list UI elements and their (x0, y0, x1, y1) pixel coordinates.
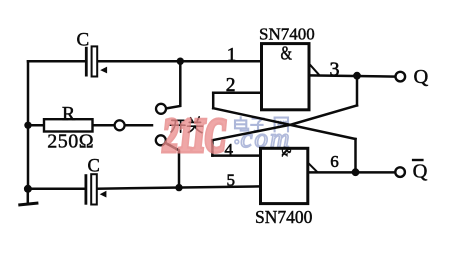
wire resistor to terminal (93, 124, 115, 127)
NAND gate U2 body (261, 148, 308, 203)
wire left vertical (27, 61, 30, 189)
capacitor C1 left plate (85, 47, 88, 77)
wire top-left segment (28, 60, 85, 63)
junction dot bottom switch (175, 184, 182, 191)
wire switch lower throw link (166, 143, 179, 188)
ground stem (27, 189, 30, 204)
NAND gate U2 output arrow (308, 163, 318, 173)
svg-text:4: 4 (225, 140, 234, 159)
wire switch upper throw link (166, 61, 180, 108)
svg-text:6: 6 (330, 152, 339, 171)
label switch guan (Chinese) (188, 117, 203, 133)
wire pin 4 (212, 154, 260, 157)
label Q-bar overline (412, 159, 424, 161)
terminal circle output Q-bar (395, 167, 405, 177)
svg-text:Q: Q (413, 160, 428, 182)
svg-text:5: 5 (226, 170, 235, 189)
wire pin 2 stub (212, 93, 215, 108)
wire pin 3 output to Q (309, 75, 395, 76)
junction dot top switch (177, 58, 184, 65)
wire top-right segment (pin 1 net) (98, 60, 262, 63)
svg-text:Q: Q (414, 66, 429, 88)
wire pin 2 (213, 92, 261, 95)
ground bar (18, 203, 38, 205)
junction dot bottom-left ground (24, 185, 32, 193)
svg-text:C: C (88, 157, 100, 177)
wire pin 3 vertical drop (356, 76, 359, 106)
wire switch pole arm (125, 124, 152, 127)
svg-text:21IC: 21IC (160, 109, 229, 161)
capacitor C2 polarity arrow (100, 191, 107, 198)
svg-text:R: R (62, 103, 76, 125)
capacitor C2 left plate (85, 174, 88, 205)
watermark .com (outlined italic) (235, 123, 292, 153)
terminal circle switch lower throw (156, 135, 166, 145)
wire pin 6 vertical rise (354, 139, 357, 172)
svg-text:3: 3 (330, 59, 340, 81)
svg-text:2: 2 (226, 75, 236, 96)
svg-text:C: C (77, 30, 90, 51)
wire resistor branch left (28, 124, 44, 127)
label switch kai (Chinese) (170, 120, 185, 132)
NAND gate U1 output arrow (309, 64, 319, 76)
capacitor C1 polarity arrow (100, 67, 107, 74)
wire pin 4 stub (211, 140, 214, 155)
watermark 21IC (160, 109, 229, 161)
NAND gate U1 body (262, 44, 310, 110)
terminal circle after resistor (115, 120, 125, 130)
terminal circle output Q (396, 72, 406, 82)
svg-text:com: com (241, 123, 292, 153)
svg-text:1: 1 (227, 45, 237, 66)
wire cross-couple pin3 node to pin4 stub (212, 105, 357, 140)
resistor R (44, 119, 93, 131)
watermark dianzi wang (Chinese, outlined) (235, 116, 288, 132)
wire bottom-right segment (pin 5 net) (97, 186, 260, 188)
capacitor C2 right plate (hollow) (91, 174, 97, 204)
wire bottom-left segment (28, 188, 85, 191)
capacitor C1 right plate (hollow) (92, 46, 98, 76)
svg-text:&: & (281, 41, 293, 64)
svg-text:SN7400: SN7400 (255, 207, 313, 227)
terminal circle switch upper throw (156, 104, 166, 114)
svg-text:250Ω: 250Ω (47, 130, 94, 152)
junction dot pin 6 node (352, 168, 360, 176)
wire pin 6 output to Q-bar (308, 171, 395, 174)
junction dot pin 3 node (353, 72, 361, 80)
wire cross-couple pin2-side to pin6 node (213, 108, 355, 139)
junction dot resistor branch (24, 122, 31, 129)
